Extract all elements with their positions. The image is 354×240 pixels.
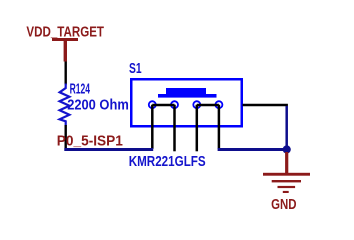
svg-text:KMR221GLFS: KMR221GLFS [129,154,206,170]
svg-text:S1: S1 [129,61,142,77]
svg-text:GND: GND [271,197,296,213]
svg-text:R124: R124 [70,82,90,98]
svg-text:P0_5-ISP1: P0_5-ISP1 [57,134,123,150]
svg-text:2200 Ohm: 2200 Ohm [67,97,129,113]
